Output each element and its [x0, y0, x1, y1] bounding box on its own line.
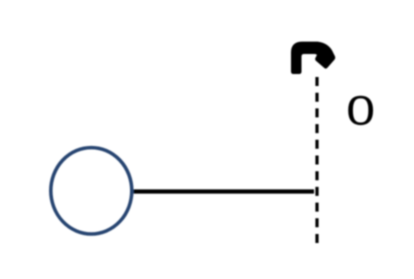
ball (circle): [51, 148, 132, 234]
svg-text:O: O: [347, 86, 374, 134]
rod (horizontal bar from ball to axis): [134, 189, 315, 193]
rotation axis (vertical dashed line): [315, 77, 318, 245]
rotation arrow (curved U-turn arrow with downward head): [291, 42, 335, 74]
